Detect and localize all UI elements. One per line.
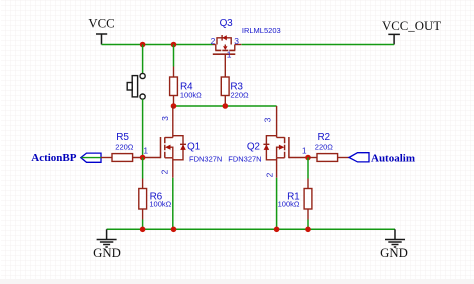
Q2 bulk arrow bbox=[279, 145, 285, 150]
wire GND bottom rail bbox=[107, 228, 395, 230]
svg-text:2: 2 bbox=[211, 36, 216, 46]
Q3 diode cathode bar bbox=[221, 35, 223, 41]
Q3 bulk stem bbox=[224, 45, 226, 47]
resistor R4 pin bottom bbox=[173, 96, 175, 107]
wire/pin Q2 gate to R2 bbox=[289, 157, 308, 159]
power port VCC_OUT bbox=[388, 34, 400, 44]
svg-text:Q3: Q3 bbox=[220, 18, 234, 29]
Q3 pin 2 source lead bbox=[213, 44, 216, 46]
svg-text:R5: R5 bbox=[116, 132, 129, 143]
svg-text:IRLML5203: IRLML5203 bbox=[242, 26, 281, 35]
ground symbol left bbox=[97, 229, 117, 247]
Q1 body-diode loop bbox=[173, 136, 183, 160]
Q2 body diode triangle bbox=[264, 145, 270, 150]
junction dot gate node Q1 bbox=[140, 155, 146, 161]
svg-text:Q2: Q2 bbox=[247, 141, 261, 152]
svg-text:2: 2 bbox=[159, 169, 169, 174]
svg-text:100kΩ: 100kΩ bbox=[180, 91, 202, 100]
svg-text:1: 1 bbox=[143, 146, 148, 156]
resistor R3 body bbox=[221, 77, 229, 96]
wire R6 bottom to rail bbox=[142, 220, 144, 230]
wire button bottom (button to gate node) bbox=[142, 99, 144, 157]
wire/pin R5 to Q1 gate bbox=[133, 157, 161, 159]
Q2 source horizontal bbox=[277, 157, 285, 159]
svg-text:GND: GND bbox=[380, 246, 408, 260]
Q3 channel segments bbox=[213, 50, 236, 54]
Q1 gate bar bbox=[160, 137, 162, 158]
resistor R1 body bbox=[304, 189, 312, 210]
wire VCC rail right (Q3 drain to VCC_OUT) bbox=[242, 44, 395, 46]
wire Q2 source to bottom rail bbox=[276, 178, 278, 230]
Q2 drain horizontal bbox=[277, 137, 285, 139]
power port VCC bbox=[96, 34, 107, 45]
resistor R4 pin top bbox=[173, 67, 175, 78]
Q1 drain horizontal bbox=[165, 137, 173, 139]
resistor R4 body bbox=[170, 77, 178, 96]
resistor R5 body bbox=[112, 154, 133, 162]
svg-text:3: 3 bbox=[234, 36, 239, 46]
junction dot on VCC rail at button column bbox=[140, 42, 146, 48]
transistor Q1 FDN327N (N-MOSFET, gate left) bbox=[161, 106, 187, 178]
wire R4 top (rail to R4) bbox=[173, 45, 175, 67]
svg-text:2: 2 bbox=[264, 172, 274, 177]
resistor R6 pin bottom bbox=[142, 209, 144, 220]
push button S1 bbox=[127, 73, 145, 99]
junction dot on VCC rail at R4 column bbox=[171, 42, 177, 48]
Q1 pin 2 source lead bbox=[172, 158, 174, 178]
resistor R2 body bbox=[317, 154, 338, 162]
junction dot bottom rail at Q2 source bbox=[274, 227, 280, 233]
svg-text:R2: R2 bbox=[318, 132, 331, 143]
Q3 source stub bbox=[215, 45, 217, 51]
resistor R2 pin right bbox=[338, 157, 349, 159]
resistor R2 pin left bbox=[308, 157, 317, 159]
wire Q1 source to bottom rail bbox=[172, 178, 174, 230]
wire R1 top (gate node down to R1) bbox=[307, 158, 309, 179]
svg-text:Q1: Q1 bbox=[187, 141, 201, 152]
resistor R1 pin top bbox=[307, 179, 309, 189]
Q3 gate bar bbox=[213, 53, 236, 55]
junction dot bottom rail at R6 bbox=[140, 227, 146, 233]
wire inside ActionBP port bbox=[82, 157, 102, 159]
ground symbol right bbox=[385, 229, 405, 247]
junction dot bottom rail at R1 bbox=[305, 227, 311, 233]
Q2 diode cathode bar bbox=[263, 143, 269, 145]
transistor Q2 FDN327N (N-MOSFET, mirrored, gate right) bbox=[263, 106, 289, 178]
Q2 gate bar bbox=[288, 137, 290, 158]
Q2 channel segments bbox=[284, 137, 286, 158]
resistor R1 pin bottom bbox=[307, 209, 309, 220]
Q3 pin 3 drain lead bbox=[235, 44, 242, 46]
Q2 body-diode loop bbox=[266, 136, 276, 160]
Q1 bulk line bbox=[170, 147, 173, 158]
resistor R6 pin top bbox=[142, 179, 144, 189]
svg-text:100kΩ: 100kΩ bbox=[149, 200, 171, 209]
Q1 bulk arrow bbox=[165, 145, 171, 150]
svg-text:100kΩ: 100kΩ bbox=[278, 200, 300, 209]
svg-text:VCC: VCC bbox=[88, 16, 114, 30]
transistor Q3 IRLML5203 (P-MOSFET, horizontal on VCC rail) bbox=[213, 35, 242, 77]
resistor R5 pin left bbox=[101, 157, 112, 159]
wire VCC rail left (VCC to Q3 source) bbox=[102, 44, 213, 46]
Q3 body-diode loop bbox=[217, 38, 231, 45]
Q1 pin 3 drain lead bbox=[172, 106, 174, 138]
svg-text:FDN327N: FDN327N bbox=[228, 155, 261, 164]
svg-text:FDN327N: FDN327N bbox=[189, 155, 222, 164]
wire button top (rail to push button) bbox=[142, 45, 144, 74]
wire mid node (R4/Q1 drain to R3 to Q2 drain) bbox=[174, 105, 277, 107]
junction dot bottom rail at Q1 source bbox=[171, 227, 177, 233]
Q3 bulk arrow (points to channel) bbox=[223, 46, 227, 50]
svg-text:ActionBP: ActionBP bbox=[31, 152, 77, 164]
svg-text:GND: GND bbox=[93, 246, 121, 260]
Q1 diode cathode bar bbox=[180, 143, 186, 145]
resistor R3 pin bottom bbox=[224, 96, 226, 107]
Q3 body diode triangle bbox=[222, 35, 226, 40]
port Autoalim bbox=[349, 153, 369, 162]
Q3 gate lead down to R3 bbox=[224, 54, 226, 77]
Q1 channel segments bbox=[164, 137, 166, 158]
svg-text:220Ω: 220Ω bbox=[231, 91, 250, 100]
svg-text:220Ω: 220Ω bbox=[315, 142, 334, 151]
svg-text:1: 1 bbox=[302, 146, 307, 156]
Q1 source horizontal bbox=[165, 157, 173, 159]
svg-text:220Ω: 220Ω bbox=[115, 142, 134, 151]
Q3 drain stub bbox=[234, 45, 236, 51]
Q2 pin 3 drain lead bbox=[276, 106, 278, 138]
svg-text:3: 3 bbox=[160, 116, 170, 121]
junction dot mid node at R3 bbox=[223, 103, 229, 109]
resistor R6 body bbox=[139, 189, 147, 210]
Q2 bulk line bbox=[277, 147, 280, 158]
svg-text:3: 3 bbox=[262, 117, 272, 122]
svg-text:Autoalim: Autoalim bbox=[371, 152, 415, 164]
wire R6 top (gate node to R6) bbox=[142, 158, 144, 179]
Q2 pin 2 source lead bbox=[276, 158, 278, 178]
svg-text:1: 1 bbox=[227, 49, 232, 59]
junction dot gate node Q2 bbox=[305, 155, 311, 161]
port ActionBP bbox=[81, 153, 101, 162]
Q1 body diode triangle bbox=[180, 145, 186, 150]
wire R1 bottom to rail bbox=[307, 220, 309, 230]
junction dot mid node at R4/Q1 bbox=[171, 103, 177, 109]
svg-text:VCC_OUT: VCC_OUT bbox=[382, 19, 441, 33]
